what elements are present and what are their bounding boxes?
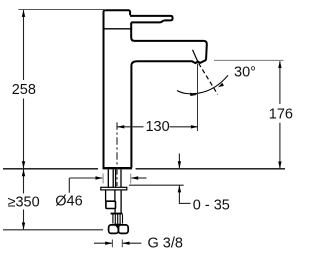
deck / counter line (3, 168, 285, 170)
extension line from aerator down (197, 64, 199, 132)
svg-text:258: 258 (12, 82, 36, 98)
mounting flange (101, 187, 127, 190)
svg-text:0 - 35: 0 - 35 (193, 198, 230, 214)
dimension 176 lower part with down arrow (279, 123, 281, 169)
diameter 46 leader with right-pointing arrow (69, 178, 102, 193)
top extension line for 258 (18, 9, 106, 11)
jet direction line solid (inside spout) (193, 50, 198, 62)
short link to fitting (114, 209, 116, 213)
faucet neck, spout and body right outline (131, 22, 207, 167)
svg-text:130: 130 (145, 119, 169, 135)
diameter 46 right side left-pointing arrow (131, 177, 146, 179)
hex nut right facet (118, 225, 128, 234)
supply hoses above flange (108, 169, 121, 187)
svg-text:G 3/8: G 3/8 (148, 236, 183, 252)
dimension 176 upper part with up arrow (279, 61, 281, 104)
dimension 130 left part with left arrow (118, 126, 144, 128)
svg-text:≥350: ≥350 (8, 195, 40, 211)
svg-text:176: 176 (269, 106, 293, 122)
dimension 258 line lower part with down arrow (23, 99, 25, 169)
bottom line hoses level (3, 229, 103, 231)
centerline of body (dash-dot) (116, 122, 118, 186)
jet direction line dashed (30 deg) (199, 63, 218, 94)
faucet cap block (104, 10, 131, 29)
arc arrowhead at centerline (190, 93, 197, 96)
dimension >=350 upper part with up arrow (23, 170, 25, 194)
svg-text:30°: 30° (234, 65, 256, 81)
diameter 46 extension lines (103, 174, 131, 184)
0-35 max deck thickness line (129, 184, 184, 186)
hose crimp taper (114, 224, 122, 229)
0-35 lower arrow pointing up to max line (178, 186, 180, 204)
G3/8 right dimension arrow pointing left (123, 242, 142, 244)
G3/8 extension lines (112, 240, 122, 248)
dimension 258 line upper part with up arrow (23, 10, 25, 80)
hose fitting cap (111, 213, 123, 215)
svg-text:Ø46: Ø46 (55, 194, 82, 210)
dimension 130 right part with right arrow (170, 126, 198, 128)
0-35 leader to label (179, 202, 191, 204)
cap seam line (104, 28, 132, 30)
hex nut left facet (109, 225, 119, 234)
faucet base bottom line (103, 167, 133, 169)
lever handle (130, 16, 172, 23)
arc arrowhead at dashed line (218, 83, 224, 88)
hose fitting ribs (113, 215, 123, 224)
extension line for 176 at outlet (214, 59, 284, 61)
dimension >=350 lower part with down arrow (23, 210, 25, 230)
0-35 upper arrow pointing down to deck (178, 154, 180, 169)
G3/8 left dimension arrow pointing right (94, 242, 112, 244)
rods below flange (106, 190, 122, 213)
swivel arc (177, 75, 228, 94)
quick connector block (106, 201, 116, 208)
faucet body left edge (103, 29, 105, 168)
